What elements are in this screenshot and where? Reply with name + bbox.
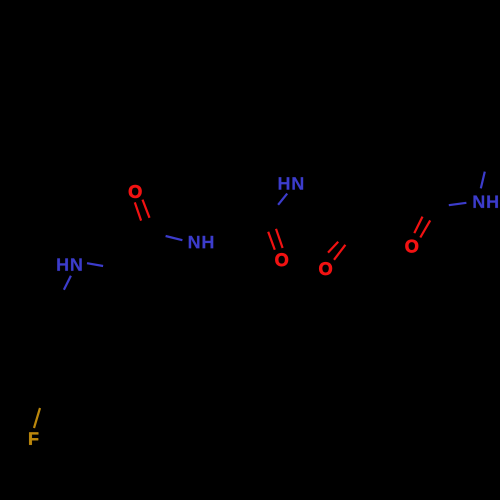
bond C=O1 double-bond line b <box>143 200 150 218</box>
bond C=O1 double-bond line a <box>135 202 141 220</box>
atom label N8: indoline HN <box>57 258 81 270</box>
atom label O6: N-methylamide oxygen <box>406 240 419 253</box>
atom label F9: fluorine <box>29 432 38 444</box>
atom label N7: N-methylamide NH (right edge) <box>474 196 498 208</box>
bond N7-C half (blue, left) <box>449 203 467 205</box>
atom label O5: ketone oxygen <box>319 262 332 275</box>
bond F9-C half (gold, up-right) <box>34 408 40 428</box>
bond N7-CH3 half (blue, up) <box>481 172 485 189</box>
bond C=O5 double-bond line b <box>334 245 345 260</box>
bond N8-C2 half (blue, right) <box>87 263 103 266</box>
bond C=O5 double-bond line a <box>328 242 338 253</box>
atom label N2: amide NH <box>189 236 213 248</box>
bond C=O4 double-bond line a <box>268 232 275 250</box>
atom label O4: lactam oxygen <box>275 253 288 266</box>
bond C-N2 half (blue) <box>166 236 183 240</box>
bond C=O6 double-bond line b <box>420 220 430 237</box>
bond N3-C half (blue, down-left) <box>278 194 287 205</box>
bond C=O4 double-bond line b <box>276 229 283 248</box>
bond N8-C7a half (blue, down-left) <box>64 276 71 290</box>
atom label O1: carboxamide oxygen (top-left) <box>129 185 142 198</box>
bond C=O6 double-bond line a <box>414 217 422 234</box>
atom label N3: lactam HN <box>279 177 303 189</box>
